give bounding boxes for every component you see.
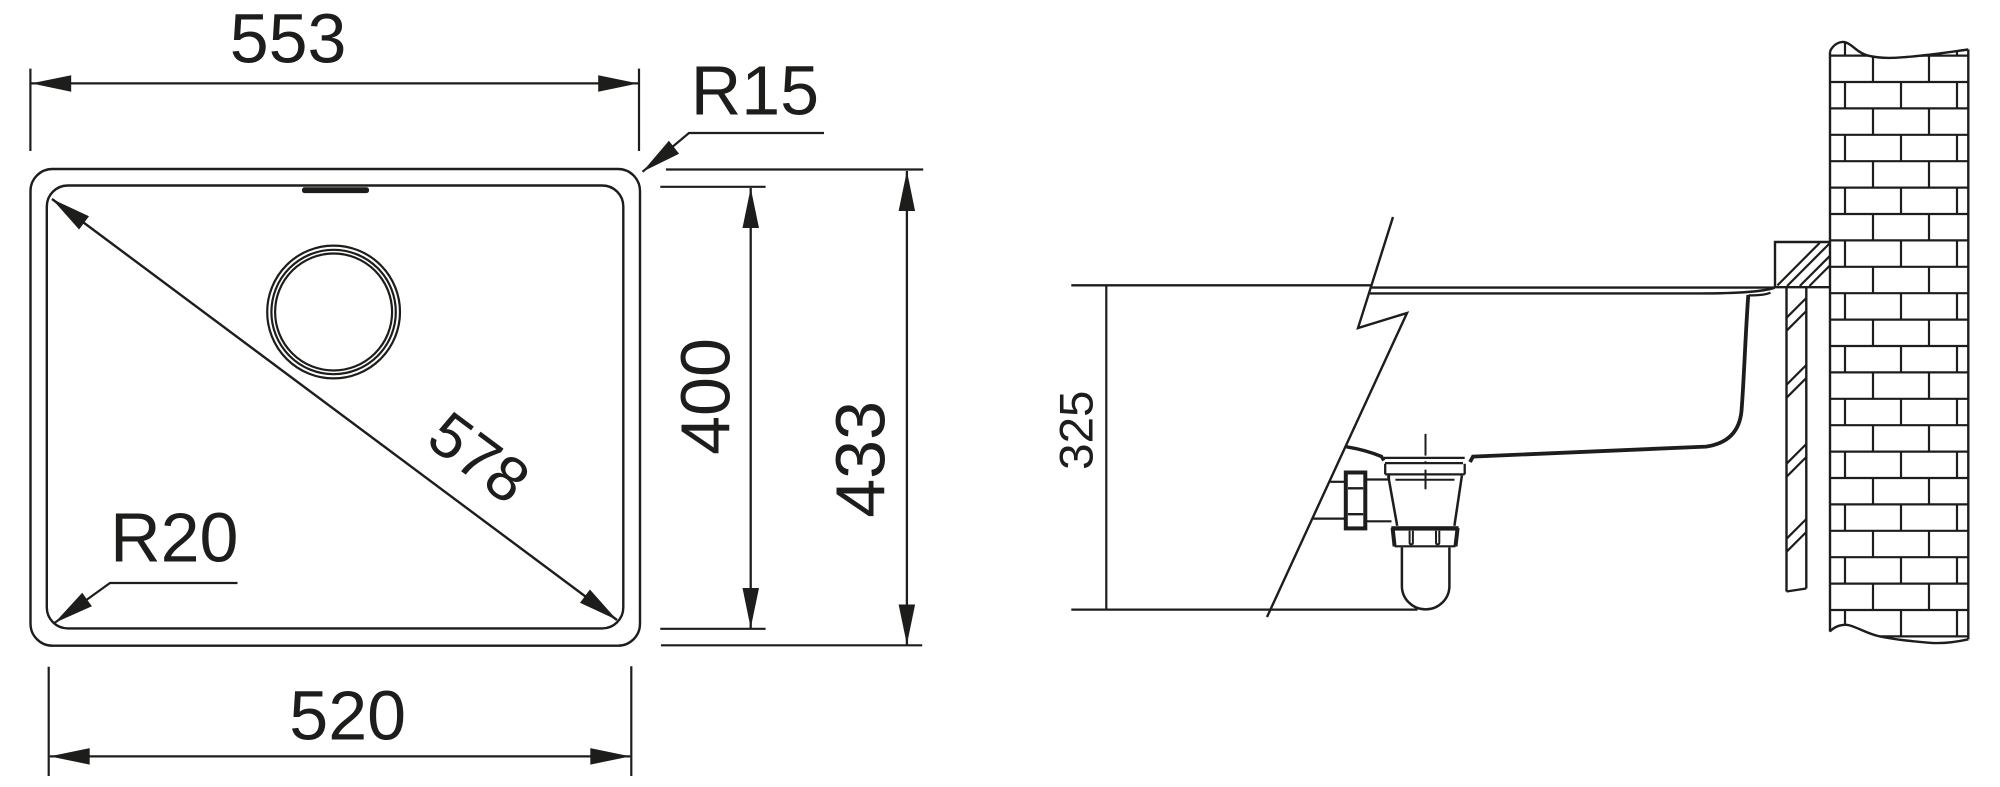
325 dimension line <box>1105 285 1107 609</box>
svg-text:R15: R15 <box>691 51 819 129</box>
svg-text:325: 325 <box>1051 391 1104 470</box>
brick wall left edge <box>1829 52 1831 632</box>
433 top arrowhead <box>899 171 916 211</box>
overflow pipe upper line <box>1330 481 1346 483</box>
brick wall bottom wavy edge <box>1830 625 1969 643</box>
400 bottom arrowhead <box>743 588 760 628</box>
520 left extension line <box>48 667 50 776</box>
bowl back wall and bottom (section) <box>1470 295 1748 462</box>
rail hatch line 3 <box>1787 365 1807 385</box>
553 right extension line <box>638 69 640 151</box>
drain locking nut <box>1391 526 1458 530</box>
bracket hatch line 2 <box>1787 243 1830 286</box>
bracket hatch line 3 <box>1800 256 1830 286</box>
520 right extension line <box>630 666 632 776</box>
sink outer rim (plan view) <box>31 169 641 646</box>
nut left side <box>1393 528 1395 546</box>
bowl bottom left of drain (section) <box>1347 447 1384 461</box>
sink rim top line <box>1372 286 1775 288</box>
400 top arrowhead <box>743 188 760 228</box>
drain hole inner circle <box>275 254 392 371</box>
svg-text:433: 433 <box>821 401 899 518</box>
rail hatch line 1 <box>1787 298 1807 318</box>
nut slot 2 <box>1436 531 1439 545</box>
nut bottom edge <box>1395 545 1456 547</box>
520 right arrowhead <box>590 748 630 765</box>
nut slot 1 <box>1410 531 1413 545</box>
400 dimension line <box>750 188 752 628</box>
553 left extension line <box>29 69 31 151</box>
overflow nut facet line 1 <box>1348 487 1363 489</box>
R15 leader arrowhead <box>643 141 680 172</box>
400 bottom extension line <box>660 628 765 630</box>
drain centerline <box>1425 434 1427 489</box>
rail hatch line 7 <box>1787 519 1807 539</box>
wall rail left edge <box>1785 288 1787 592</box>
overflow nut facet line 2 <box>1348 513 1363 515</box>
drain hole middle circle <box>271 250 395 374</box>
rail hatch line 5 <box>1787 444 1807 464</box>
overflow connector top <box>1365 478 1389 480</box>
diagonal dimension line 578 <box>52 199 617 620</box>
nut right side <box>1456 528 1458 546</box>
drain tailpiece cup <box>1402 548 1450 610</box>
553 dimension line <box>31 82 638 84</box>
svg-text:R20: R20 <box>110 499 238 577</box>
strainer flange lip top <box>1384 457 1465 459</box>
strainer body left side <box>1388 476 1397 526</box>
325 bottom extension line <box>1071 608 1417 610</box>
svg-text:578: 578 <box>416 399 542 518</box>
overflow pipe nut (bold) <box>1346 473 1366 529</box>
sink bowl inner edge (plan view) <box>47 186 624 629</box>
rail hatch line 2 <box>1787 311 1807 331</box>
433 top extension line <box>666 168 923 170</box>
R20 leader arrowhead <box>55 593 92 623</box>
brick wall pattern <box>1830 36 1968 636</box>
brick wall top wavy edge <box>1830 42 1968 58</box>
strainer cross line <box>1395 479 1454 481</box>
overflow connector bottom <box>1365 520 1391 522</box>
520 left arrowhead <box>50 748 90 765</box>
diagonal arrowhead upper-left <box>52 199 89 230</box>
520 dimension line <box>50 755 631 757</box>
bracket hatch line 1 <box>1777 243 1819 286</box>
strainer body right side <box>1454 476 1462 526</box>
rail hatch line 4 <box>1787 378 1807 398</box>
svg-text:400: 400 <box>666 338 744 455</box>
brick wall right edge <box>1967 50 1969 640</box>
wall rail right edge <box>1805 288 1807 589</box>
sink rim under-edge rising to back corner <box>1370 288 1775 294</box>
svg-text:520: 520 <box>289 677 406 755</box>
wall bracket outline <box>1775 242 1830 287</box>
diagonal arrowhead lower-right <box>580 590 617 621</box>
rail hatch line 8 <box>1787 532 1807 552</box>
433 bottom arrowhead <box>899 605 916 645</box>
400 top extension line <box>660 186 765 188</box>
svg-text:553: 553 <box>230 0 347 78</box>
553 right arrowhead <box>598 75 638 92</box>
bracket hatch line 4 <box>1809 265 1830 286</box>
counter/rim level line (left of break) <box>1071 284 1371 286</box>
overflow slot <box>302 187 369 193</box>
break line (lightning) <box>1267 217 1407 617</box>
R15 leader line <box>643 133 825 172</box>
433 dimension line <box>906 171 908 645</box>
overflow connector step <box>1388 474 1390 479</box>
R20 leader line <box>55 583 238 623</box>
drain hole outer circle <box>267 246 400 379</box>
rim rolled edge lower line <box>1749 293 1771 296</box>
overflow pipe lower line <box>1313 517 1346 519</box>
rail hatch line 6 <box>1787 457 1807 477</box>
433 bottom extension line <box>661 644 922 646</box>
553 left arrowhead <box>31 75 71 92</box>
drain recess floor <box>1385 462 1463 464</box>
strainer flange body <box>1385 464 1465 475</box>
wall rail bottom edge <box>1787 589 1807 592</box>
